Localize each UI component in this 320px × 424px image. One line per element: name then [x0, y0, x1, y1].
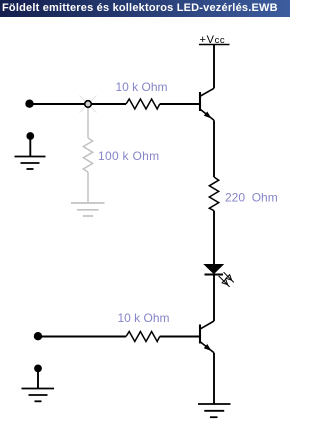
svg-text:10 k Ohm: 10 k Ohm	[116, 80, 168, 94]
LED light arrow 1	[224, 272, 234, 282]
Q1 emitter arrow	[204, 111, 213, 120]
wire input1 to R1	[33, 103, 126, 105]
ground (bottom-left)	[22, 389, 55, 402]
svg-text:220 Ohm: 220 Ohm	[225, 191, 278, 205]
ground (under Q2)	[198, 404, 231, 417]
node A junction	[85, 101, 92, 108]
resistor R3 220	[209, 177, 218, 211]
terminal dot IN1	[25, 100, 33, 108]
window title bar	[0, 0, 290, 17]
LED D1	[205, 265, 224, 275]
Q2 emitter arrow	[204, 344, 213, 353]
svg-text:10 k Ohm: 10 k Ohm	[118, 311, 170, 325]
wire dot to ground1	[29, 138, 31, 156]
LED light arrow 2	[219, 276, 230, 287]
ground (gray, under R2)	[71, 203, 105, 216]
ground (top-left)	[15, 157, 46, 170]
svg-text:100 k Ohm: 100 k Ohm	[98, 149, 159, 163]
wire dot to ground2	[37, 370, 39, 388]
terminal dot ground bottom-left	[34, 365, 42, 373]
wire LED to Q2 collector	[213, 275, 215, 322]
transistor Q1	[200, 88, 214, 120]
node X selection marks	[80, 96, 97, 113]
wire R1 to Q1 base	[160, 103, 199, 105]
wire input2 to R4	[42, 336, 126, 338]
wire Q1 collector to Vcc	[213, 45, 215, 89]
resistor R2 100k (gray)	[83, 107, 92, 203]
terminal dot IN2	[34, 332, 42, 340]
terminal dot ground top-left	[26, 132, 34, 140]
wire R3 to LED	[213, 211, 215, 265]
wire Q1 emitter to R3	[213, 120, 215, 177]
power +Vcc	[199, 34, 230, 46]
resistor R1 10k	[126, 99, 160, 109]
wire Q2 emitter to ground	[213, 353, 215, 404]
wire R4 to Q2 base	[160, 336, 199, 338]
resistor R4 10k	[126, 332, 160, 342]
svg-text:+Vcc: +Vcc	[200, 34, 226, 46]
transistor Q2	[200, 321, 214, 353]
